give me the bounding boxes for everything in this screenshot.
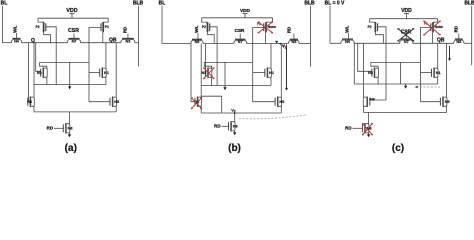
ground arrow below N8	[368, 133, 370, 135]
wire N2 source	[377, 77, 379, 84]
wire WL lead	[16, 33, 18, 39]
ground arrow below N8	[234, 131, 236, 133]
junction dot V1 (panel b)	[279, 43, 281, 45]
svg-text:N3: N3	[291, 40, 296, 44]
svg-text:N1: N1	[269, 71, 274, 75]
wire VDD rail	[38, 17, 108, 19]
svg-text:VDD: VDD	[401, 8, 412, 14]
svg-text:P2: P2	[202, 25, 206, 29]
wire N1 gate from P1 gate line	[421, 72, 432, 74]
wire P1 gate line	[421, 28, 431, 102]
svg-text:P1: P1	[257, 22, 261, 26]
svg-text:N2: N2	[202, 71, 207, 75]
svg-text:BLB: BLB	[464, 1, 474, 7]
svg-text:N7: N7	[238, 40, 243, 44]
wire P2 drain	[375, 32, 383, 43]
svg-text:N5: N5	[445, 100, 450, 104]
wire N1 gate from P1 gate line	[89, 72, 100, 74]
transistor N1 (pull-down)	[432, 68, 441, 78]
wire N6 source	[200, 106, 202, 113]
svg-text:QB: QB	[109, 38, 117, 44]
wire mid-rail stub to bottom wire	[224, 62, 226, 85]
svg-text:RD: RD	[47, 126, 53, 131]
wire N2 source	[211, 77, 213, 86]
svg-text:None: None	[268, 25, 276, 29]
ground arrow below N8	[69, 133, 71, 135]
wire N5 source	[280, 106, 282, 113]
wire BL vertical	[161, 6, 163, 44]
svg-text:P2: P2	[36, 25, 40, 29]
wire VDD rail	[370, 18, 438, 20]
wire N1 source	[437, 77, 439, 84]
svg-text:(a): (a)	[65, 143, 77, 154]
current arrow below QB (panel c)	[449, 46, 451, 59]
wire BL-N4-Q-N7-QB-N3-BLB row	[3, 42, 139, 44]
wire Q to N2 gate	[36, 43, 41, 72]
svg-text:P1: P1	[105, 25, 109, 29]
wire P1 gate line	[253, 28, 264, 102]
wire N2 drain to mid rail	[40, 62, 47, 68]
wire P2 gate to mid rail	[46, 27, 57, 85]
wire BLB vertical	[471, 6, 473, 66]
wire P2 drain	[208, 32, 215, 43]
wire Q to N2 gate	[204, 44, 206, 72]
transistor N5 (read stack)	[440, 97, 449, 107]
wire bottom row 1	[201, 85, 271, 87]
wire mid-rail stub to bottom wire	[69, 62, 71, 84]
transistor N6 (read stack)	[363, 97, 375, 107]
transistor N3 (access)	[454, 34, 464, 45]
transistor N3 (access)	[121, 34, 135, 44]
svg-text:BL = 0 V: BL = 0 V	[325, 1, 345, 7]
svg-text:RD: RD	[214, 124, 220, 129]
svg-text:N3: N3	[456, 40, 461, 44]
transistor N8 (read buffer)	[229, 121, 238, 131]
wire Q to N6 gate	[27, 43, 30, 102]
svg-text:RD: RD	[123, 27, 128, 33]
svg-text:RD: RD	[345, 126, 351, 131]
failure mark X on P1 (panel c)	[424, 21, 441, 35]
wire RD lead	[353, 127, 363, 129]
wire N6 gate to P2 gate line	[370, 99, 386, 101]
transistor N5 (read stack)	[110, 97, 119, 107]
wire WL lead	[348, 33, 350, 40]
ground arrow at bottom wire	[224, 86, 226, 88]
transistor P1 (pull-up)	[101, 18, 109, 32]
wire QB to N1 drain	[437, 43, 439, 68]
wire bottom row 1	[34, 84, 106, 86]
svg-text:BL: BL	[1, 1, 8, 7]
transistor N4 (access)	[12, 39, 22, 44]
wire P2 gate to mid rail	[210, 27, 218, 86]
wire bottom row 2	[364, 112, 447, 114]
wire mid rail	[204, 61, 252, 63]
transistor N4 (access)	[191, 39, 203, 44]
wire N5 gate from P1 gate line	[89, 101, 110, 103]
wire mid-rail stub to bottom wire	[400, 62, 402, 84]
wire Q to N6 drain	[33, 43, 35, 98]
transistor N1 (pull-down)	[100, 68, 109, 78]
wire BL vertical	[329, 6, 331, 44]
svg-text:(c): (c)	[392, 143, 404, 154]
svg-text:N8: N8	[68, 127, 73, 131]
svg-text:None: None	[435, 25, 443, 29]
wire Q to N2 gate	[358, 43, 372, 71]
wire P1 gate line	[89, 28, 101, 102]
wire N2 source	[46, 77, 48, 85]
wire N1 source	[105, 77, 107, 85]
wire N5 source	[446, 106, 448, 113]
svg-text:N5: N5	[114, 100, 119, 104]
transistor N2 (pull-down)	[368, 68, 378, 78]
wire P2 drain	[44, 32, 51, 42]
wire QB to N5 drain	[115, 43, 117, 98]
svg-text:BLB: BLB	[304, 1, 315, 7]
transistor N3 (access)	[289, 34, 299, 45]
wire N5 source	[115, 106, 117, 112]
failure mark X on P1 (panel b)	[258, 22, 273, 33]
wire bottom row 1	[354, 83, 437, 85]
wire QB to N5 drain	[280, 44, 282, 98]
svg-text:N5: N5	[279, 100, 284, 104]
svg-text:BLB: BLB	[133, 1, 144, 7]
wire QB to N1 drain	[270, 44, 272, 69]
wire mid rail	[40, 61, 89, 63]
wire Q to N6 drain	[363, 43, 365, 97]
svg-text:VDD: VDD	[240, 8, 251, 13]
wire N2 drain to mid rail	[371, 62, 378, 68]
svg-text:CSR: CSR	[235, 28, 245, 33]
wire N8 drain	[69, 112, 71, 124]
ground arrow at bottom wire	[69, 85, 71, 87]
svg-text:N8: N8	[233, 125, 238, 129]
failure mark X on N8 (panel c)	[362, 123, 372, 135]
svg-text:WL: WL	[194, 25, 200, 33]
dashed read path (panel b)	[239, 115, 306, 119]
svg-text:N7: N7	[404, 40, 409, 44]
svg-text:QB: QB	[437, 37, 445, 43]
wire bottom row 2	[34, 111, 116, 113]
transistor N2 (pull-down)	[37, 68, 47, 78]
svg-text:N2: N2	[368, 71, 373, 75]
svg-text:N1: N1	[104, 71, 109, 75]
wire N8 drain	[234, 113, 236, 122]
failure mark X on CSR/N7 (panel c)	[398, 29, 414, 42]
transistor N6 (read stack)	[194, 97, 201, 107]
ground arrow at bottom wire	[405, 84, 407, 86]
transistor N7 (CSR switch)	[234, 34, 247, 45]
wire P2 gate to mid rail	[378, 27, 387, 100]
svg-text:N3: N3	[125, 39, 130, 43]
transistor P1 (pull-up)	[431, 19, 443, 33]
wire N1 source	[270, 77, 272, 86]
wire N6 source	[363, 106, 365, 113]
transistor P1 (pull-up)	[264, 18, 276, 33]
wire P1 drain	[265, 32, 267, 43]
transistor P2 (pull-up)	[202, 18, 210, 33]
svg-text:N1: N1	[436, 71, 441, 75]
wire N1 gate from P1 gate line	[253, 72, 265, 74]
svg-text:BL: BL	[159, 1, 166, 7]
svg-text:(b): (b)	[228, 143, 241, 154]
wire Q feeder to bottom wire	[353, 43, 355, 84]
wire N5 gate from P1 gate line	[253, 101, 275, 103]
wire BLB vertical	[310, 6, 312, 67]
transistor N8 (read buffer)	[63, 123, 72, 133]
svg-text:N6: N6	[27, 100, 32, 104]
svg-text:VDD: VDD	[66, 8, 77, 14]
svg-text:Q: Q	[31, 38, 35, 44]
failure mark X on N6 (panel b)	[191, 98, 202, 109]
wire RD lead	[222, 125, 229, 127]
wire QB to N1 drain	[105, 43, 107, 69]
svg-text:RD: RD	[287, 27, 292, 33]
transistor N7 (CSR switch)	[400, 34, 413, 45]
svg-text:N7: N7	[72, 39, 77, 43]
wire VDD rail	[202, 17, 273, 19]
transistor N5 (read stack)	[275, 97, 284, 107]
svg-text:P2: P2	[368, 25, 372, 29]
transistor N7 (CSR switch)	[68, 34, 81, 44]
wire Q to N6 drain	[200, 44, 202, 98]
svg-text:P1: P1	[424, 22, 428, 26]
transistor N2 (pull-down)	[202, 68, 212, 78]
transistor P2 (pull-up)	[368, 19, 378, 33]
transistor N6 (read stack)	[27, 97, 34, 107]
current arrow near N5 drain (panel b)	[286, 45, 288, 89]
wire N8 drain	[368, 113, 370, 125]
svg-text:RD: RD	[454, 26, 459, 32]
wire BL vertical	[2, 6, 4, 43]
svg-text:N6: N6	[370, 98, 375, 102]
wire N6 drain to V2 column (panel b)	[201, 96, 222, 113]
wire BL-N4-Q-N7-QB-N3-BLB row	[330, 42, 472, 44]
transistor N8 (read buffer)	[362, 123, 371, 133]
wire N2 drain to mid rail	[204, 62, 211, 68]
node marker triangle at V1 (panel b)	[275, 41, 278, 44]
wire BL-N4-Q-N7-QB-N3-BLB row	[162, 43, 311, 45]
transistor N1 (pull-down)	[265, 68, 274, 78]
transistor N4 (access)	[341, 39, 354, 44]
wire N6 source	[33, 106, 35, 112]
wire Q to N6 gate	[191, 44, 195, 102]
junction dot V2 (panel b)	[234, 112, 236, 114]
wire bottom row 2	[201, 112, 281, 114]
wire BLB vertical	[138, 6, 140, 67]
svg-text:CSR: CSR	[68, 28, 79, 34]
wire mid rail	[371, 61, 421, 63]
wire RD lead	[54, 127, 63, 129]
wire P1 drain	[102, 32, 104, 42]
dashed read path with left arrow (panel c)	[418, 86, 441, 88]
transistor P2 (pull-up)	[36, 18, 46, 32]
failure mark X on N2 (panel b)	[204, 68, 215, 79]
wire N5 gate from P1 gate line	[421, 101, 441, 103]
wire QB to N5 drain	[446, 43, 448, 97]
wire WL lead	[197, 33, 199, 40]
wire P1 drain	[432, 32, 434, 43]
svg-text:WL: WL	[13, 25, 19, 33]
svg-text:WL: WL	[345, 25, 351, 33]
svg-text:N2: N2	[37, 71, 42, 75]
